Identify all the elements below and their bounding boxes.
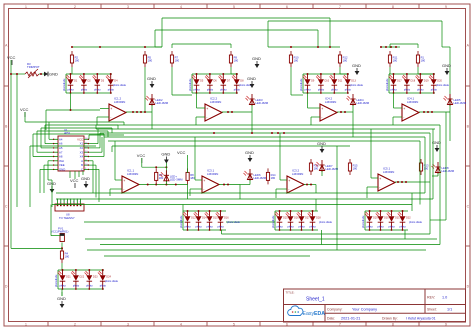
junction xyxy=(213,132,215,134)
wire xyxy=(45,110,47,130)
junction xyxy=(10,73,12,75)
junction xyxy=(393,92,395,94)
photodiode D2 xyxy=(79,74,91,93)
wire xyxy=(123,122,125,125)
svg-text:180: 180 xyxy=(353,167,358,171)
photodiode D5 xyxy=(192,74,204,93)
wire xyxy=(96,128,435,130)
svg-text:LM393N: LM393N xyxy=(207,172,218,176)
trimpot R3 xyxy=(25,62,40,78)
wire xyxy=(222,111,252,113)
wire xyxy=(190,188,195,190)
border tick xyxy=(466,165,471,167)
power PV1 VCC(PWR01) xyxy=(51,227,68,242)
svg-text:9: 9 xyxy=(445,323,447,327)
wire xyxy=(187,185,189,200)
pin X2 xyxy=(84,147,89,149)
junction xyxy=(433,92,435,94)
svg-text:D30: D30 xyxy=(384,217,389,220)
wire xyxy=(89,156,104,158)
svg-text:180: 180 xyxy=(65,255,70,259)
junction xyxy=(236,73,238,75)
svg-text:4: 4 xyxy=(180,5,182,9)
LED LED+ xyxy=(160,170,183,182)
resistor R11 xyxy=(388,51,397,67)
svg-text:VCC: VCC xyxy=(70,178,79,183)
svg-text:3: 3 xyxy=(127,323,129,327)
power VCC xyxy=(137,153,146,163)
wire xyxy=(48,122,50,139)
wire xyxy=(98,169,100,202)
junction xyxy=(136,111,138,113)
svg-text:180: 180 xyxy=(314,167,319,171)
wire xyxy=(439,125,441,245)
junction xyxy=(83,92,85,94)
photodiode D31 xyxy=(387,211,401,230)
wire xyxy=(275,210,318,212)
wire xyxy=(111,146,113,152)
wire xyxy=(161,18,163,47)
svg-text:D19: D19 xyxy=(424,80,429,83)
junction xyxy=(209,92,211,94)
junction xyxy=(301,229,303,231)
svg-text:TO TEENSY: TO TEENSY xyxy=(59,216,75,220)
svg-text:D18: D18 xyxy=(411,80,416,83)
svg-text:Sheet:: Sheet: xyxy=(427,308,437,312)
wire xyxy=(47,161,49,180)
svg-text:LM393N: LM393N xyxy=(383,170,394,174)
svg-text:8: 8 xyxy=(392,323,394,327)
junction xyxy=(83,73,85,75)
svg-text:GND: GND xyxy=(317,141,326,146)
wire xyxy=(307,93,309,108)
wire xyxy=(437,173,439,176)
junction xyxy=(227,111,229,113)
wire xyxy=(69,171,71,178)
junction xyxy=(70,92,72,94)
border tick xyxy=(418,4,420,9)
wire xyxy=(192,73,238,75)
junction xyxy=(75,288,77,290)
wire xyxy=(389,92,435,94)
border tick xyxy=(100,4,102,9)
junction xyxy=(271,132,273,134)
pin xyxy=(63,199,65,205)
wire xyxy=(424,137,426,193)
ground xyxy=(44,72,58,77)
wire xyxy=(155,29,318,31)
photodiode D16 xyxy=(216,211,230,230)
svg-text:GND: GND xyxy=(245,150,254,155)
svg-text:LM393N: LM393N xyxy=(127,172,138,176)
wire xyxy=(74,171,76,179)
wire xyxy=(371,177,378,179)
svg-text:1.0: 1.0 xyxy=(442,296,447,300)
pin VCC xyxy=(84,138,89,140)
svg-text:photo: photo xyxy=(431,89,438,92)
wire xyxy=(40,168,53,170)
svg-text:LM393N: LM393N xyxy=(210,100,221,104)
wire xyxy=(251,105,253,112)
junction xyxy=(220,210,222,212)
svg-text:5: 5 xyxy=(233,323,235,327)
power VCC xyxy=(20,107,29,117)
svg-text:D22: D22 xyxy=(80,276,85,279)
wire xyxy=(41,147,53,149)
op-amp IC4.1 xyxy=(402,96,419,121)
wire xyxy=(52,160,54,162)
svg-text:GND: GND xyxy=(57,296,66,301)
wire xyxy=(95,125,97,129)
pin X1 xyxy=(84,143,89,145)
border tick xyxy=(466,85,471,87)
wire xyxy=(43,165,45,193)
LED LED7 xyxy=(316,160,339,172)
junction xyxy=(175,184,177,186)
junction xyxy=(110,73,112,75)
svg-text:photodiode: photodiode xyxy=(63,78,66,91)
svg-text:7: 7 xyxy=(339,323,341,327)
junction xyxy=(431,111,433,113)
junction xyxy=(61,247,63,249)
junction xyxy=(251,132,253,134)
wire xyxy=(88,135,90,139)
ground xyxy=(161,152,170,164)
wire xyxy=(51,181,53,207)
svg-text:D25: D25 xyxy=(283,217,288,220)
wire xyxy=(10,60,12,248)
pin xyxy=(80,199,82,205)
svg-text:photo diode: photo diode xyxy=(319,221,333,224)
pin INH xyxy=(53,160,58,162)
border tick xyxy=(4,245,9,247)
wire xyxy=(104,255,310,257)
junction xyxy=(301,210,303,212)
wire xyxy=(58,269,104,271)
wire xyxy=(364,211,366,230)
svg-text:1: 1 xyxy=(25,5,27,9)
ground xyxy=(245,150,254,162)
wire xyxy=(221,230,223,234)
svg-text:+: + xyxy=(288,179,290,183)
junction xyxy=(187,229,189,231)
wire xyxy=(352,112,354,137)
wire xyxy=(417,44,419,48)
junction xyxy=(402,210,404,212)
svg-text:GND: GND xyxy=(442,63,451,68)
svg-text:D17: D17 xyxy=(397,80,402,83)
wire xyxy=(303,92,349,94)
ground xyxy=(432,140,441,152)
svg-text:GND: GND xyxy=(59,168,65,172)
wire xyxy=(33,156,53,158)
IC U1 4051 xyxy=(58,128,84,171)
border tick xyxy=(47,4,49,9)
junction xyxy=(312,229,314,231)
photodiode D7 xyxy=(219,74,231,93)
junction xyxy=(209,229,211,231)
wire xyxy=(103,141,105,157)
wire xyxy=(37,130,108,132)
junction xyxy=(406,92,408,94)
ground xyxy=(81,176,90,188)
wire xyxy=(51,180,53,181)
ground xyxy=(252,56,261,68)
svg-text:GND: GND xyxy=(252,56,261,61)
wire xyxy=(97,129,99,144)
junction xyxy=(88,269,90,271)
junction xyxy=(209,210,211,212)
pin xyxy=(70,199,72,205)
svg-text:D13: D13 xyxy=(351,80,356,83)
wire xyxy=(336,146,338,250)
wire xyxy=(61,289,63,292)
ground xyxy=(317,141,326,153)
junction xyxy=(427,111,429,113)
junction xyxy=(290,229,292,231)
wire xyxy=(274,211,276,230)
border tick xyxy=(206,4,208,9)
wire xyxy=(100,244,440,246)
wire xyxy=(58,288,104,290)
wire xyxy=(389,44,391,48)
pin B xyxy=(84,164,89,166)
svg-text:photo: photo xyxy=(108,89,115,92)
svg-text:D14: D14 xyxy=(202,217,207,220)
photodiode D10 xyxy=(316,74,330,93)
wire xyxy=(84,221,183,223)
svg-text:180: 180 xyxy=(148,59,153,63)
wire xyxy=(141,158,143,167)
border tick xyxy=(153,4,155,9)
power VCC xyxy=(7,55,16,65)
wire xyxy=(89,164,96,166)
wire xyxy=(429,133,431,234)
svg-text:+: + xyxy=(206,107,208,111)
wire xyxy=(66,73,112,75)
pin C xyxy=(84,168,89,170)
wire xyxy=(56,192,425,194)
wire xyxy=(89,160,93,162)
wire xyxy=(226,221,275,223)
photodiode D13 xyxy=(343,74,357,93)
resistor R12 xyxy=(338,51,348,67)
svg-text:180: 180 xyxy=(421,59,426,63)
junction xyxy=(307,73,309,75)
wire xyxy=(302,74,304,93)
resistor R4 xyxy=(60,247,69,263)
wire xyxy=(50,205,52,236)
photodiode D26 xyxy=(286,211,300,230)
wire xyxy=(171,67,173,95)
svg-text:+: + xyxy=(110,107,112,111)
border tick xyxy=(206,322,208,327)
wire xyxy=(249,180,251,185)
junction xyxy=(391,210,393,212)
svg-text:D16: D16 xyxy=(224,217,229,220)
svg-text:LM393N: LM393N xyxy=(292,172,303,176)
svg-text:LED-3MM: LED-3MM xyxy=(256,101,269,105)
wire xyxy=(39,73,44,75)
svg-text:GND: GND xyxy=(147,76,156,81)
wire xyxy=(71,67,73,74)
photodiode D6 xyxy=(205,74,217,93)
svg-text:LED-3MM: LED-3MM xyxy=(254,176,267,180)
ground xyxy=(442,63,451,75)
wire xyxy=(61,243,63,252)
wire xyxy=(317,30,319,47)
svg-text:LED-3MM: LED-3MM xyxy=(170,178,183,182)
wire xyxy=(389,73,435,75)
svg-text:photodiode: photodiode xyxy=(300,78,303,91)
wire xyxy=(404,230,406,239)
wire xyxy=(51,235,60,237)
svg-text:1/1: 1/1 xyxy=(447,308,452,312)
svg-text:Company:: Company: xyxy=(327,307,343,311)
pin A5 xyxy=(53,147,58,149)
wire xyxy=(16,74,18,207)
wire xyxy=(25,121,49,123)
wire xyxy=(89,151,102,153)
wire xyxy=(37,151,53,153)
resistor R9 xyxy=(229,51,238,67)
wire xyxy=(96,117,98,125)
svg-text:D20: D20 xyxy=(437,80,442,83)
photodiode D20 xyxy=(429,74,443,93)
EasyEDA logo xyxy=(288,306,326,317)
wire xyxy=(352,105,354,112)
border tick xyxy=(365,4,367,9)
junction xyxy=(236,92,238,94)
wire xyxy=(329,18,331,47)
pin A4 xyxy=(53,138,58,140)
resistor R8 xyxy=(186,168,195,184)
svg-text:VCC: VCC xyxy=(137,153,146,158)
photodiode D14 xyxy=(194,211,208,230)
junction xyxy=(231,111,233,113)
pin A xyxy=(84,160,89,162)
wire xyxy=(182,205,184,212)
svg-text:3: 3 xyxy=(127,5,129,9)
power VCC xyxy=(70,178,79,188)
junction xyxy=(279,210,281,212)
junction xyxy=(62,269,64,271)
junction xyxy=(155,166,157,168)
pin xyxy=(73,199,75,205)
wire xyxy=(182,211,184,230)
svg-text:I Ketut Aryasuta 01: I Ketut Aryasuta 01 xyxy=(406,316,436,320)
wire xyxy=(162,17,330,19)
border tick xyxy=(4,85,9,87)
photodiode D15 xyxy=(205,211,219,230)
wire xyxy=(49,138,53,140)
junction xyxy=(102,288,104,290)
wire xyxy=(280,188,287,190)
junction xyxy=(155,184,157,186)
junction xyxy=(96,73,98,75)
svg-text:photodiode: photodiode xyxy=(180,215,183,228)
svg-text:Sheet_1: Sheet_1 xyxy=(306,297,325,303)
wire xyxy=(315,185,317,194)
wire xyxy=(268,20,442,22)
junction xyxy=(140,111,142,113)
wire xyxy=(49,121,124,123)
svg-text:6: 6 xyxy=(286,323,288,327)
wire xyxy=(192,92,238,94)
junction xyxy=(227,184,229,186)
junction xyxy=(96,92,98,94)
svg-text:D29: D29 xyxy=(373,217,378,220)
wire xyxy=(92,161,94,193)
wire xyxy=(275,229,318,231)
svg-text:180: 180 xyxy=(271,176,276,180)
junction xyxy=(198,210,200,212)
svg-text:D21: D21 xyxy=(66,276,71,279)
wire xyxy=(230,67,232,74)
svg-text:180: 180 xyxy=(159,176,164,180)
wire xyxy=(154,30,156,47)
wire xyxy=(33,133,104,135)
svg-text:photo: photo xyxy=(288,226,295,229)
junction xyxy=(393,73,395,75)
junction xyxy=(380,229,382,231)
wire xyxy=(117,125,119,129)
wire xyxy=(449,105,451,112)
wire xyxy=(36,131,38,152)
junction xyxy=(279,229,281,231)
svg-text:TRIMPOT: TRIMPOT xyxy=(27,65,40,69)
svg-text:photo: photo xyxy=(60,285,67,288)
svg-text:180: 180 xyxy=(343,59,348,63)
svg-text:photo: photo xyxy=(220,89,227,92)
junction xyxy=(144,46,146,48)
wire xyxy=(240,184,250,186)
wire xyxy=(311,116,320,118)
junction xyxy=(75,269,77,271)
svg-text:1: 1 xyxy=(25,323,27,327)
svg-text:VCC: VCC xyxy=(177,150,186,155)
wire xyxy=(126,111,152,113)
wire xyxy=(441,21,443,47)
wire xyxy=(219,184,240,186)
junction xyxy=(401,181,403,183)
photodiode D1 xyxy=(66,74,78,93)
svg-text:REV:: REV: xyxy=(427,296,435,300)
svg-text:180: 180 xyxy=(393,59,398,63)
svg-text:+: + xyxy=(379,177,381,181)
photodiode D12 xyxy=(183,211,197,230)
wire xyxy=(303,73,349,75)
photodiode D30 xyxy=(376,211,390,230)
wire xyxy=(196,116,205,118)
photodiode D25 xyxy=(275,211,289,230)
junction xyxy=(329,46,331,48)
wire xyxy=(48,160,53,162)
wire xyxy=(194,137,196,180)
svg-text:photo: photo xyxy=(94,89,101,92)
wire xyxy=(365,229,408,231)
wire xyxy=(392,117,394,125)
junction xyxy=(306,184,308,186)
svg-text:photo diode: photo diode xyxy=(350,84,364,87)
photodiode D29 xyxy=(365,211,379,230)
junction xyxy=(402,229,404,231)
junction xyxy=(333,73,335,75)
svg-text:8: 8 xyxy=(392,5,394,9)
svg-text:D12: D12 xyxy=(191,217,196,220)
svg-text:+: + xyxy=(123,179,125,183)
svg-text:photo diode: photo diode xyxy=(105,280,119,283)
